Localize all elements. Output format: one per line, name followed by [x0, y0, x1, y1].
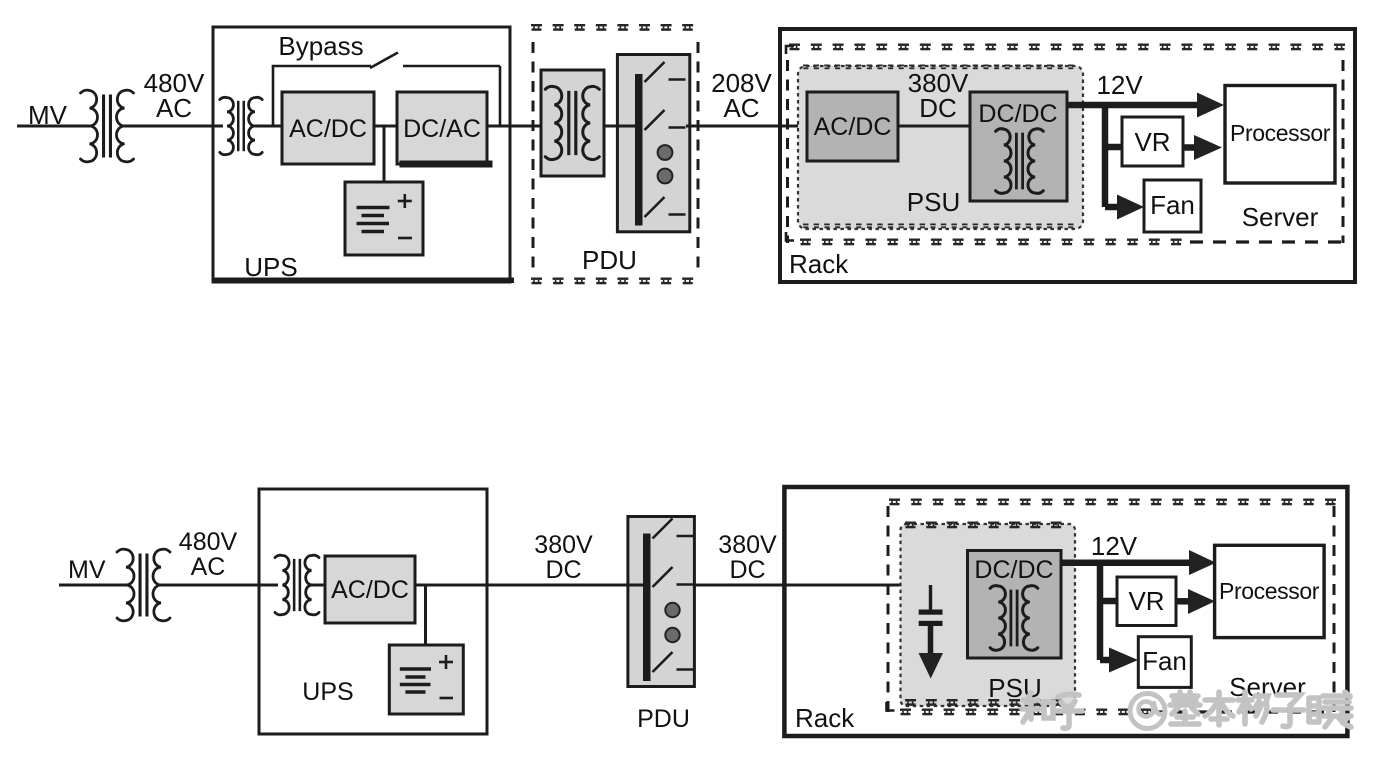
server dashed boundary left	[786, 60, 789, 243]
svg-text:MV: MV	[68, 556, 106, 584]
Rack box (bottom)	[784, 487, 1347, 736]
Fan box (bottom)	[1138, 637, 1191, 688]
battery B2	[389, 645, 463, 714]
DC/DC transformer symbol (bottom)	[990, 586, 1005, 651]
UPS box (bottom)	[259, 489, 487, 734]
wire: battery tap vertical (bottom)	[424, 585, 427, 645]
PDU isolation transformer box	[541, 70, 604, 176]
transformer T4 (UPS input, bottom)	[275, 555, 289, 615]
PSU torn edge marks bottom	[803, 224, 809, 229]
svg-text:PDU: PDU	[637, 705, 690, 733]
DC/DC converter box (PSU)	[970, 92, 1067, 201]
svg-text:UPS: UPS	[302, 678, 353, 706]
12V bus thick wire (bottom)	[1061, 559, 1192, 566]
DC/DC transformer symbol	[996, 129, 1011, 194]
transformer T2 (UPS input)	[220, 97, 234, 154]
PDU torn edge marks bottom	[531, 278, 542, 285]
svg-text:480V: 480V	[179, 528, 238, 556]
wire: PDU output to rack	[686, 125, 807, 128]
svg-text:380V: 380V	[534, 531, 593, 559]
svg-text:AC: AC	[191, 553, 226, 581]
PSU torn edge marks top (bottom)	[905, 522, 916, 529]
12V bus thick wire	[1067, 102, 1200, 109]
watermark glyph 杨	[1238, 692, 1268, 724]
server dashed boundary bottom (bottom rack)	[1150, 710, 1334, 713]
PDU transformer symbol	[545, 86, 561, 159]
PDU torn edge marks top	[531, 24, 542, 31]
svg-text:AC/DC: AC/DC	[814, 113, 892, 141]
Fan box	[1144, 180, 1201, 232]
watermark glyph 乎	[1055, 694, 1082, 728]
Processor box	[1225, 86, 1335, 184]
svg-text:DC/DC: DC/DC	[978, 100, 1057, 128]
breaker panel CB2 (bottom PDU)	[628, 517, 695, 687]
PSU shaded region (bottom rack)	[901, 524, 1076, 706]
wire: branch to VR (bottom)	[1097, 598, 1117, 605]
wire: T4 to AC/DC	[311, 584, 325, 587]
VR arrowhead to Processor (bottom)	[1188, 589, 1215, 614]
svg-text:AC: AC	[156, 93, 192, 123]
bypass switch blade	[370, 53, 398, 69]
svg-text:UPS: UPS	[244, 252, 297, 282]
svg-text:Fan: Fan	[1150, 190, 1195, 220]
12V branch vertical	[1102, 102, 1109, 207]
svg-text:Bypass: Bypass	[278, 31, 363, 61]
watermark glyph 曦	[1309, 698, 1319, 722]
server torn edge marks bottom (bottom rack)	[900, 709, 911, 716]
server corner bracket bottom-left	[786, 232, 794, 241]
svg-text:DC: DC	[729, 556, 765, 584]
transformer T1 (MV step-down)	[81, 90, 98, 162]
breaker panel CB1 (PDU)	[617, 55, 689, 232]
PDU dashed boundary left	[532, 42, 535, 274]
svg-text:Rack: Rack	[795, 703, 855, 733]
wire: T2 to AC/DC rectifier	[255, 125, 282, 128]
watermark glyph @	[1130, 694, 1165, 729]
wire: branch to VR	[1102, 144, 1122, 151]
wire: T1 to UPS transformer T2	[124, 125, 223, 128]
AC/DC rectifier box (bottom UPS)	[325, 556, 415, 623]
svg-text:Processor: Processor	[1230, 120, 1331, 146]
transformer T3 (MV step-down)	[117, 549, 134, 621]
capacitor C1 plates	[919, 610, 943, 615]
svg-text:DC/AC: DC/AC	[403, 115, 481, 143]
Fan arrowhead	[1117, 195, 1144, 220]
svg-text:PSU: PSU	[907, 187, 960, 217]
UPS box	[213, 27, 510, 282]
capacitor C1 lower lead	[928, 626, 934, 655]
server dashed boundary left (bottom rack)	[887, 506, 890, 718]
svg-text:Rack: Rack	[789, 249, 849, 279]
server torn edge marks top	[789, 44, 800, 51]
wire: T3 to UPS	[160, 584, 278, 587]
wire: branch to Fan (bottom)	[1100, 657, 1111, 664]
svg-text:Processor: Processor	[1219, 578, 1320, 604]
svg-text:Server: Server	[1242, 202, 1319, 232]
Processor box (bottom)	[1215, 545, 1325, 637]
wire: PDU output to rack (bottom)	[694, 584, 968, 587]
PSU shaded region (top rack)	[798, 66, 1083, 229]
VR arrowhead to Processor	[1194, 135, 1222, 160]
svg-text:DC: DC	[919, 93, 957, 123]
Rack box (top)	[780, 29, 1355, 282]
svg-text:DC: DC	[545, 556, 581, 584]
wire: DC/AC output to PDU	[487, 125, 545, 128]
DC/DC converter box (bottom PSU)	[968, 551, 1062, 659]
watermark glyph 基	[1170, 692, 1200, 724]
AC/DC rectifier box (UPS)	[282, 92, 374, 164]
DC/AC inverter box (UPS)	[397, 92, 487, 164]
server dashed boundary bottom	[1190, 240, 1343, 243]
watermark glyph 本	[1205, 692, 1233, 725]
PSU torn edge marks top	[803, 65, 809, 70]
wire: VR output (bottom)	[1176, 598, 1190, 605]
VR box (bottom)	[1117, 577, 1176, 626]
wire: branch to Fan	[1105, 204, 1119, 211]
server torn edge marks top (bottom rack)	[889, 499, 900, 506]
server corner bracket top-left	[786, 46, 794, 54]
12V arrowhead to Processor (bottom)	[1189, 550, 1216, 575]
watermark glyph 子	[1273, 695, 1304, 727]
wire: VR output	[1183, 144, 1197, 151]
svg-text:MV: MV	[28, 100, 68, 130]
wire: MV feed to transformer T3	[59, 584, 127, 587]
svg-text:PDU: PDU	[582, 245, 637, 275]
bypass switch wiring	[272, 66, 275, 126]
svg-text:12V: 12V	[1096, 70, 1143, 100]
12V arrowhead to Processor	[1197, 93, 1224, 118]
watermark glyph 知	[1022, 693, 1040, 722]
svg-text:VR: VR	[1134, 127, 1170, 157]
12V branch vertical (bottom)	[1097, 560, 1104, 661]
wire: AC/DC output with battery tap	[415, 584, 628, 587]
svg-text:380V: 380V	[718, 531, 777, 559]
svg-text:AC/DC: AC/DC	[331, 576, 409, 604]
battery B1	[345, 182, 423, 255]
PSU torn edge marks bottom (bottom)	[905, 699, 916, 706]
svg-text:DC/DC: DC/DC	[974, 556, 1053, 584]
server dashed boundary right	[1342, 60, 1345, 243]
capacitor C1 lead	[929, 585, 932, 611]
down arrowhead (return path)	[919, 653, 944, 679]
wire: AC/DC to DC/AC with battery tap node	[374, 125, 397, 128]
Fan arrowhead (bottom)	[1109, 648, 1138, 673]
wire: PSU AC/DC to DC/DC	[898, 125, 970, 128]
wire: MV feed to transformer T1	[17, 125, 90, 128]
VR box	[1122, 117, 1183, 166]
server corner bracket bottom-left (bottom rack)	[887, 702, 895, 711]
svg-text:AC/DC: AC/DC	[289, 115, 367, 143]
PDU dashed boundary right	[697, 42, 700, 274]
svg-text:VR: VR	[1128, 586, 1164, 616]
svg-text:Fan: Fan	[1142, 646, 1187, 676]
svg-text:AC: AC	[723, 93, 759, 123]
server torn edge marks bottom	[800, 239, 811, 246]
svg-text:12V: 12V	[1091, 531, 1138, 561]
server dashed boundary right (bottom rack)	[1333, 506, 1336, 718]
AC/DC rectifier box (PSU)	[807, 92, 898, 161]
wire: transformer to breaker panel	[604, 125, 617, 128]
wire: battery tap vertical	[383, 126, 386, 182]
shadow bar under DC/AC box	[400, 161, 493, 168]
